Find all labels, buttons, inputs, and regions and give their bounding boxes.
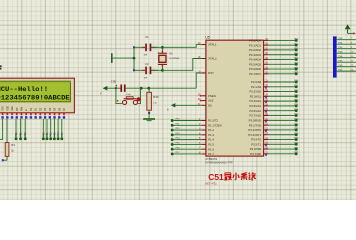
junction dot R33 top [147, 87, 150, 90]
wire reset node [110, 73, 201, 88]
MCU U5 AT89C51 body [205, 36, 263, 157]
svg-text:P0.6/AD6: P0.6/AD6 [249, 67, 261, 71]
junction square R33 bottom [148, 112, 150, 114]
svg-text:R33: R33 [153, 95, 159, 99]
svg-text:P1.2: P1.2 [208, 128, 214, 132]
svg-text:P3.5/T1: P3.5/T1 [251, 142, 261, 146]
junction square R1 bottom [2, 159, 4, 161]
junction dot common [133, 57, 136, 60]
chip caption AT89C51 [205, 157, 233, 165]
svg-text:P0.7/AD7: P0.7/AD7 [249, 72, 261, 76]
svg-text:P2.3/A11: P2.3/A11 [250, 94, 262, 98]
svg-text:P3.3/INT1: P3.3/INT1 [248, 133, 261, 137]
pins P2.0-P2.7 with wires and terminals [249, 79, 298, 117]
junction square C2 left [133, 69, 135, 71]
unconnected pin marker ALE [200, 100, 202, 102]
svg-text:P2.1/A9: P2.1/A9 [251, 85, 261, 89]
svg-text:P01: P01 [46, 132, 49, 137]
pins 1-8 P1.0-P1.7 with terminals [171, 118, 222, 156]
bus P0 (blue) [333, 36, 337, 77]
svg-text:P1.4: P1.4 [208, 138, 214, 142]
svg-text:RST: RST [208, 71, 214, 75]
wire R1 bottom to left [3, 159, 7, 161]
svg-text:P3.4/T0: P3.4/T0 [251, 138, 261, 142]
svg-text:P03: P03 [53, 132, 56, 137]
svg-text:10k: 10k [153, 103, 157, 105]
svg-text:XTAL1: XTAL1 [208, 43, 217, 47]
power terminal EA (arrow left) [167, 103, 201, 111]
svg-text:P0.1/AD1: P0.1/AD1 [249, 43, 261, 47]
svg-text:P21: P21 [20, 132, 23, 137]
bus branch wires P00-P07 [337, 38, 356, 71]
resistor R1 [5, 143, 15, 161]
LCD pin number boxes (pins 1-14) [1, 113, 65, 119]
pin 31 EA [198, 103, 212, 108]
svg-text:AT89C51: AT89C51 [205, 157, 217, 161]
svg-text:DATARAM(4)=0000-7FFF: DATARAM(4)=0000-7FFF [205, 161, 233, 164]
svg-text:ALE: ALE [208, 99, 213, 103]
svg-text:P1.7: P1.7 [208, 152, 214, 156]
svg-text:P3.6/WR: P3.6/WR [250, 147, 261, 151]
svg-text:P1.6: P1.6 [208, 147, 214, 151]
svg-text:30P: 30P [144, 55, 148, 57]
svg-text:P20: P20 [15, 132, 18, 137]
wire VDD (LCD pin2) down to R1 [6, 119, 8, 143]
svg-text:P1.0/T2: P1.0/T2 [208, 119, 218, 123]
pin 19 XTAL1 [198, 42, 217, 47]
svg-text:P1.3: P1.3 [208, 133, 214, 137]
svg-text:C1: C1 [145, 35, 149, 39]
wire XTAL2 net [151, 59, 201, 71]
svg-text:P0.3/AD3: P0.3/AD3 [249, 53, 261, 57]
pin 30 ALE [198, 98, 214, 103]
power terminal VCC top right [345, 24, 356, 34]
pin 9 RST [199, 71, 214, 76]
svg-text:C35: C35 [111, 79, 117, 83]
wires RS RW E to terminals [15, 119, 28, 140]
pins P0.0-P0.7 with wires and terminals [249, 38, 299, 76]
svg-text:P3.2/INT0: P3.2/INT0 [248, 128, 261, 132]
title subtext red [205, 181, 217, 185]
svg-text:P0.2/AD2: P0.2/AD2 [249, 48, 261, 52]
svg-text:P2.4/A12: P2.4/A12 [249, 99, 261, 103]
LCD module LCD1 (LM016L) body [0, 78, 74, 113]
svg-text:P2.7/A15: P2.7/A15 [249, 114, 261, 118]
svg-text:VSS: VSS [3, 106, 5, 111]
svg-text:P0.4/AD4: P0.4/AD4 [249, 58, 261, 62]
pin 18 XTAL2 [198, 56, 217, 61]
junction square C1 left [133, 46, 135, 48]
svg-text:P2.0/A8: P2.0/A8 [251, 80, 261, 84]
svg-text:5V: 5V [167, 108, 169, 111]
svg-text:P05: P05 [61, 132, 64, 137]
svg-text:P00: P00 [42, 132, 45, 137]
wire XTAL1 net [151, 45, 201, 48]
svg-text:MCU--Hello!!: MCU--Hello!! [0, 86, 48, 93]
svg-text:P3.1/TXD: P3.1/TXD [249, 123, 261, 127]
svg-text:1k: 1k [11, 150, 14, 153]
svg-text:EA: EA [208, 103, 212, 107]
svg-text:30P: 30P [144, 78, 148, 80]
unconnected pin marker PSEN [200, 95, 202, 97]
svg-text:C51: C51 [208, 172, 224, 182]
resistor R33 [147, 88, 159, 113]
svg-text:0123456789!0ABCDE: 0123456789!0ABCDE [0, 95, 70, 102]
power terminal reset (+5V arrow) [101, 86, 110, 95]
svg-text:11.0592MHZ: 11.0592MHZ [169, 58, 180, 60]
svg-text:XTAL2: XTAL2 [208, 57, 217, 61]
svg-text:NET+P31: NET+P31 [205, 181, 217, 185]
svg-text:P0.5/AD5: P0.5/AD5 [249, 62, 261, 66]
capacitor C1 [134, 35, 158, 56]
pin 29 PSEN [198, 93, 216, 98]
svg-text:P2.2/A10: P2.2/A10 [249, 90, 261, 94]
junction dot button-left [115, 87, 117, 89]
svg-text:X1: X1 [169, 52, 173, 56]
junction dot crystal top [161, 46, 164, 49]
svg-text:P2.6/A14: P2.6/A14 [249, 109, 261, 113]
push button reset [116, 85, 141, 105]
ground under R33 [143, 113, 155, 121]
svg-text:RS: RS [17, 107, 19, 111]
svg-text:C2: C2 [145, 62, 149, 66]
capacitor C35 [111, 79, 132, 96]
title C51 minimal system (red) [208, 172, 256, 182]
svg-text:P1.5: P1.5 [208, 143, 214, 147]
LCD screen text [0, 86, 70, 102]
svg-text:P04: P04 [57, 132, 60, 137]
svg-text:P3.0/RXD: P3.0/RXD [249, 119, 261, 123]
svg-text:P22: P22 [24, 132, 27, 137]
wire C1 C2 common vertical [133, 47, 135, 70]
svg-text:U5: U5 [205, 36, 209, 40]
svg-text:VDD: VDD [7, 106, 9, 111]
svg-text:PSEN: PSEN [208, 94, 216, 98]
wire VSS (LCD pin1) down and left [0, 119, 3, 139]
LCD pin name labels VSS VDD VEE RS RW E D0-D7 [3, 106, 66, 111]
wires D2-D7 to terminals [42, 119, 64, 140]
svg-text:10uF: 10uF [126, 94, 131, 96]
svg-text:P02: P02 [50, 132, 53, 137]
junction dot button-right [140, 87, 143, 90]
svg-text:P3.7/RD: P3.7/RD [250, 152, 261, 156]
junction dot crystal bottom [161, 69, 164, 72]
crystal X1 [158, 47, 180, 70]
svg-text:P1.1/T2EX: P1.1/T2EX [208, 123, 222, 127]
svg-text:P2.5/A13: P2.5/A13 [249, 104, 261, 108]
svg-text:5V: 5V [101, 91, 103, 94]
capacitor C2 [134, 62, 158, 79]
label fragment at left edge [0, 65, 2, 69]
ground symbol left of C1 C2 [112, 53, 134, 63]
pins P3.0-P3.7 with wires and terminals [248, 118, 298, 156]
svg-text:P0.0/AD0: P0.0/AD0 [249, 39, 261, 43]
svg-text:VEE: VEE [12, 106, 14, 111]
svg-text:R1: R1 [11, 143, 15, 147]
